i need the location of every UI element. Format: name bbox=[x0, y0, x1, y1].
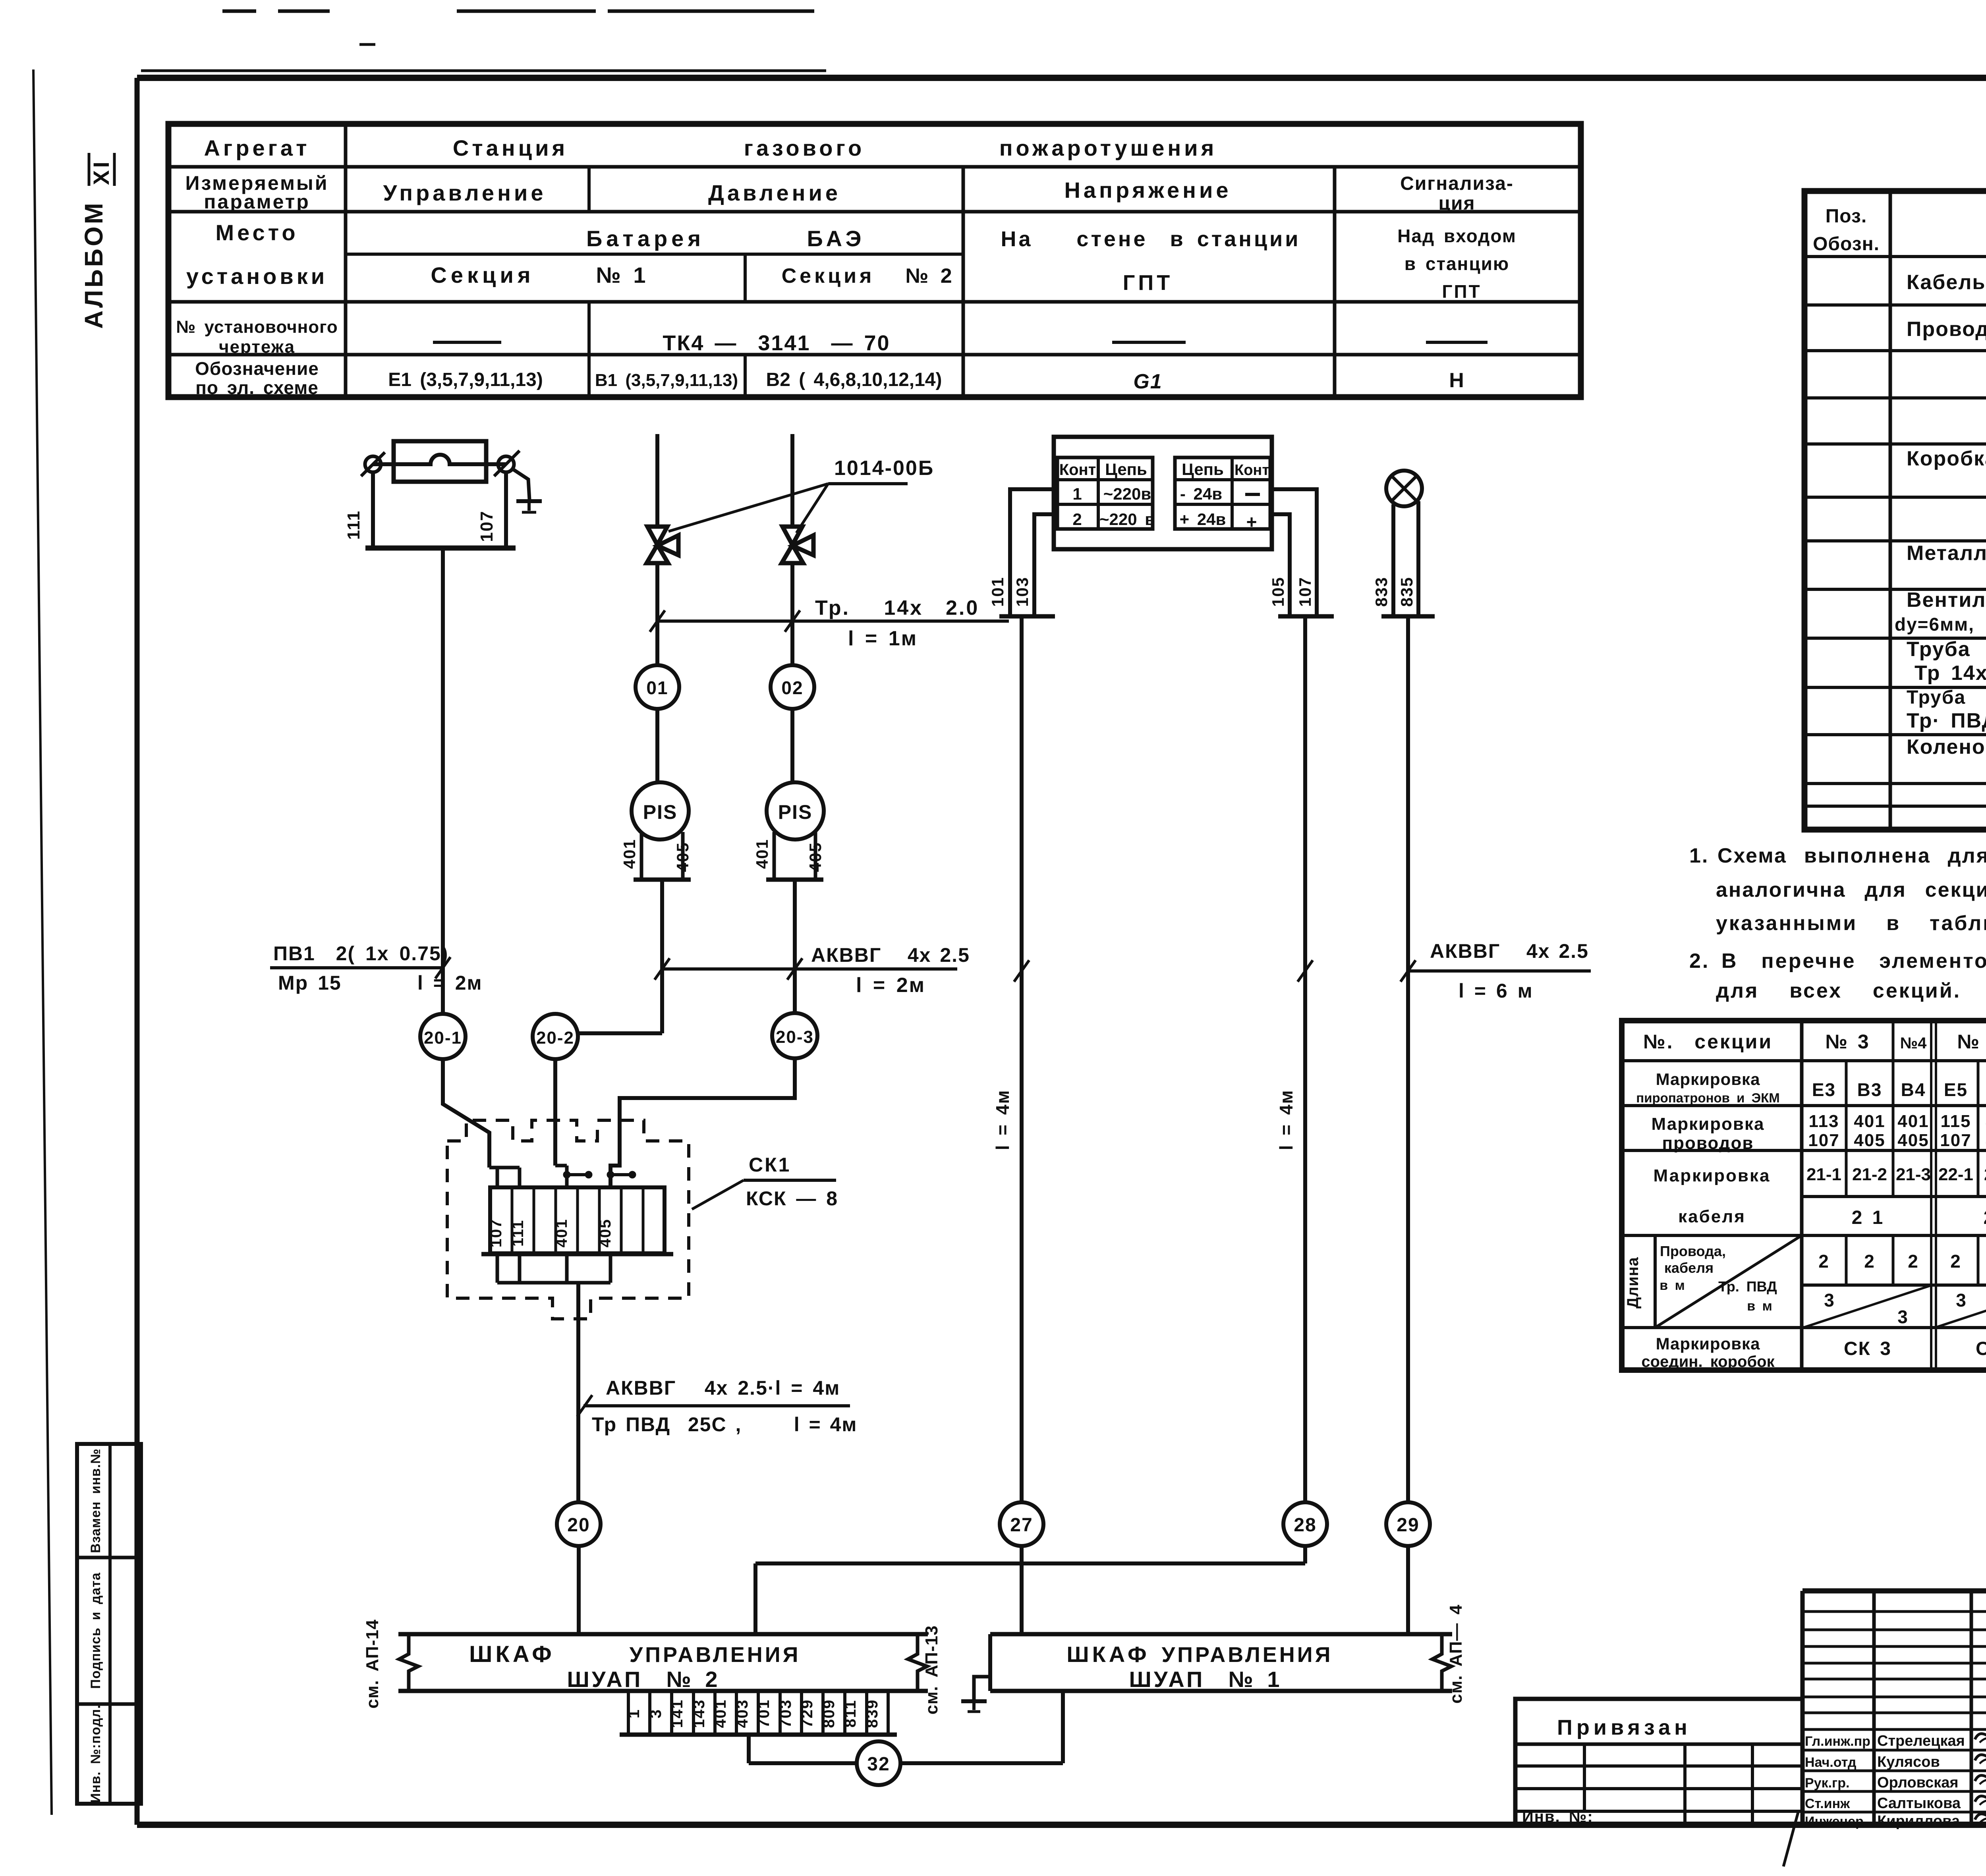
svg-text:БАЭ: БАЭ bbox=[807, 226, 865, 251]
svg-text:115: 115 bbox=[1941, 1112, 1971, 1131]
svg-text:3: 3 bbox=[1956, 1290, 1967, 1310]
svg-text:Маркировка: Маркировка bbox=[1656, 1334, 1760, 1353]
svg-text:кабеля: кабеля bbox=[1678, 1207, 1746, 1226]
svg-text:В2 ( 4,6,8,10,12,14): В2 ( 4,6,8,10,12,14) bbox=[766, 369, 942, 390]
svg-text:405: 405 bbox=[673, 842, 692, 872]
svg-text:1: 1 bbox=[1072, 484, 1082, 503]
svg-text:Труба полиэтиленовая среднег: Труба полиэтиленовая среднего типа bbox=[1907, 687, 1986, 708]
svg-text:В1 (3,5,7,9,11,13): В1 (3,5,7,9,11,13) bbox=[595, 371, 738, 390]
svg-text:G1: G1 bbox=[1133, 370, 1162, 393]
svg-text:1014-00Б: 1014-00Б bbox=[834, 457, 934, 480]
svg-text:27: 27 bbox=[1010, 1515, 1033, 1536]
svg-text:Орловская: Орловская bbox=[1877, 1774, 1959, 1791]
svg-text:809: 809 bbox=[820, 1699, 838, 1728]
svg-text:729: 729 bbox=[798, 1699, 816, 1728]
svg-text:ция: ция bbox=[1438, 193, 1475, 214]
svg-text:Е1 (3,5,7,9,11,13): Е1 (3,5,7,9,11,13) bbox=[388, 369, 543, 390]
svg-text:Тр. ПВД: Тр. ПВД bbox=[1718, 1278, 1777, 1295]
svg-text:703: 703 bbox=[777, 1699, 794, 1728]
svg-text:833: 833 bbox=[1372, 577, 1391, 607]
svg-text:пожаротушения: пожаротушения bbox=[999, 135, 1217, 160]
svg-text:Взамен инв.№: Взамен инв.№ bbox=[88, 1448, 103, 1553]
svg-text:аналогична для секций № 3 .: аналогична для секций № 3 .... № 14 с из… bbox=[1716, 878, 1986, 901]
svg-text:20-1: 20-1 bbox=[424, 1028, 462, 1048]
svg-text:Кабель АКВВГ 4х 2.5 ГОСТ 15: Кабель АКВВГ 4х 2.5 ГОСТ 1508 -78 bbox=[1907, 271, 1986, 294]
svg-text:газового: газового bbox=[744, 135, 865, 160]
svg-text:по эл. схеме: по эл. схеме bbox=[195, 377, 319, 398]
svg-text:чертежа: чертежа bbox=[219, 337, 295, 357]
svg-text:28: 28 bbox=[1294, 1515, 1316, 1536]
svg-text:l = 4м: l = 4м bbox=[992, 1090, 1013, 1150]
svg-text:СК1: СК1 bbox=[749, 1154, 791, 1176]
svg-text:29: 29 bbox=[1397, 1515, 1419, 1536]
svg-text:см. АП— 4: см. АП— 4 bbox=[1446, 1604, 1466, 1704]
svg-text:в станции: в станции bbox=[1170, 227, 1301, 251]
svg-text:в м: в м bbox=[1747, 1299, 1772, 1314]
svg-text:701: 701 bbox=[755, 1699, 773, 1728]
svg-text:Рук.гр.: Рук.гр. bbox=[1805, 1776, 1849, 1791]
svg-text:401: 401 bbox=[753, 839, 771, 869]
svg-text:Агрегат: Агрегат bbox=[204, 135, 310, 160]
svg-text:ПВ1 2( 1х 0.75): ПВ1 2( 1х 0.75) bbox=[273, 942, 448, 965]
svg-text:Инв. №:: Инв. №: bbox=[1522, 1808, 1594, 1826]
svg-text:XI: XI bbox=[89, 159, 114, 185]
svg-text:УПРАВЛЕНИЯ: УПРАВЛЕНИЯ bbox=[630, 1643, 801, 1667]
svg-text:401: 401 bbox=[553, 1219, 570, 1248]
svg-text:На: На bbox=[1001, 227, 1033, 251]
svg-text:Напряжение: Напряжение bbox=[1064, 178, 1231, 203]
svg-text:+: + bbox=[1246, 511, 1258, 532]
svg-text:103: 103 bbox=[1013, 577, 1032, 607]
svg-text:835: 835 bbox=[1397, 577, 1416, 607]
svg-text:Мр 15 l = 2м: Мр 15 l = 2м bbox=[278, 972, 483, 994]
svg-text:Е5: Е5 bbox=[1944, 1079, 1968, 1100]
svg-text:ШУАП № 1: ШУАП № 1 bbox=[1129, 1667, 1282, 1692]
svg-text:Металлорукав РЗ-Ц-Х-Ш-: Металлорукав РЗ-Ц-Х-Ш-15 bbox=[1907, 542, 1986, 565]
svg-text:в станцию: в станцию bbox=[1404, 253, 1509, 274]
svg-text:Управление: Управление bbox=[383, 180, 547, 205]
svg-text:В4: В4 bbox=[1901, 1079, 1926, 1100]
svg-text:3: 3 bbox=[1897, 1307, 1909, 1327]
svg-text:№ 5: № 5 bbox=[1957, 1031, 1986, 1053]
svg-text:В3: В3 bbox=[1857, 1079, 1882, 1100]
svg-text:ШКАФ: ШКАФ bbox=[469, 1641, 555, 1667]
svg-text:ШУАП № 2: ШУАП № 2 bbox=[567, 1667, 720, 1692]
svg-text:2: 2 bbox=[1864, 1251, 1875, 1272]
svg-text:111: 111 bbox=[344, 510, 363, 540]
svg-text:соедин. коробок: соедин. коробок bbox=[1641, 1353, 1775, 1370]
svg-text:405: 405 bbox=[1854, 1131, 1885, 1150]
svg-text:107: 107 bbox=[487, 1219, 505, 1248]
svg-text:401: 401 bbox=[620, 839, 639, 869]
svg-text:Маркировка: Маркировка bbox=[1652, 1114, 1765, 1134]
svg-text:403: 403 bbox=[734, 1699, 751, 1728]
svg-text:811: 811 bbox=[842, 1700, 859, 1728]
svg-text:Нач.отд: Нач.отд bbox=[1805, 1755, 1857, 1770]
svg-text:Сигнализа-: Сигнализа- bbox=[1400, 173, 1514, 194]
svg-text:Труба стальная бесшовная: Труба стальная бесшовная bbox=[1907, 638, 1986, 661]
svg-text:01: 01 bbox=[646, 677, 668, 698]
svg-text:Маркировка: Маркировка bbox=[1656, 1070, 1760, 1089]
svg-text:Тр 14х 2.0 ГОСТ 8734 -79: Тр 14х 2.0 ГОСТ 8734 -79 bbox=[1915, 662, 1986, 685]
svg-text:КСК — 8: КСК — 8 bbox=[746, 1187, 838, 1210]
svg-text:Е3: Е3 bbox=[1812, 1079, 1836, 1100]
svg-text:~220в: ~220в bbox=[1103, 484, 1151, 503]
svg-text:кабеля: кабеля bbox=[1664, 1260, 1714, 1276]
svg-text:№4: №4 bbox=[1900, 1035, 1927, 1052]
svg-text:401: 401 bbox=[1897, 1112, 1929, 1131]
svg-text:107: 107 bbox=[1808, 1131, 1839, 1150]
svg-text:№. секции: №. секции bbox=[1643, 1031, 1773, 1053]
svg-text:АЛЬБОМ: АЛЬБОМ bbox=[79, 201, 108, 329]
svg-text:параметр: параметр bbox=[204, 191, 310, 213]
svg-text:Тр ПВД 25С , l = 4м: Тр ПВД 25С , l = 4м bbox=[592, 1413, 857, 1436]
svg-text:3: 3 bbox=[647, 1709, 665, 1718]
svg-text:107: 107 bbox=[1296, 577, 1314, 607]
svg-text:Вентиль трехходовой 1014-: Вентиль трехходовой 1014- 00Б bbox=[1907, 589, 1986, 612]
svg-text:141: 141 bbox=[668, 1699, 686, 1728]
svg-text:Секция: Секция bbox=[782, 264, 875, 288]
svg-text:PIS: PIS bbox=[778, 801, 813, 823]
svg-text:l = 4м: l = 4м bbox=[1276, 1090, 1296, 1150]
svg-text:+ 24в: + 24в bbox=[1180, 510, 1226, 529]
svg-text:№ 2: № 2 bbox=[905, 264, 953, 288]
svg-text:2 2: 2 2 bbox=[1984, 1207, 1986, 1228]
svg-text:l = 2м: l = 2м bbox=[856, 974, 925, 997]
svg-text:АКВВГ 4х 2.5: АКВВГ 4х 2.5 bbox=[811, 944, 970, 966]
svg-text:АКВВГ 4х 2.5·l = 4м: АКВВГ 4х 2.5·l = 4м bbox=[606, 1377, 840, 1399]
svg-text:стене: стене bbox=[1076, 227, 1148, 251]
svg-text:указанными в таблице пр: указанными в таблице применимости. bbox=[1716, 912, 1986, 935]
svg-text:l = 6 м: l = 6 м bbox=[1459, 980, 1533, 1002]
svg-text:113: 113 bbox=[1809, 1112, 1839, 1131]
svg-text:PIS: PIS bbox=[643, 801, 678, 823]
svg-text:Ст.инж: Ст.инж bbox=[1805, 1796, 1850, 1811]
svg-text:Кулясов: Кулясов bbox=[1877, 1754, 1940, 1770]
svg-text:2: 2 bbox=[1950, 1251, 1961, 1272]
svg-text:Давление: Давление bbox=[708, 180, 841, 205]
svg-text:1: 1 bbox=[625, 1709, 643, 1718]
svg-text:Конт: Конт bbox=[1234, 462, 1269, 479]
svg-text:- 24в: - 24в bbox=[1180, 484, 1222, 503]
svg-text:Цепь: Цепь bbox=[1182, 460, 1224, 479]
svg-text:Кириллова: Кириллова bbox=[1877, 1813, 1960, 1830]
svg-text:21-1: 21-1 bbox=[1806, 1165, 1841, 1184]
svg-text:143: 143 bbox=[690, 1699, 708, 1728]
svg-text:см. АП-14: см. АП-14 bbox=[363, 1619, 382, 1709]
svg-text:Инв. №:подл.: Инв. №:подл. bbox=[88, 1704, 103, 1803]
svg-text:СК 3: СК 3 bbox=[1844, 1338, 1891, 1359]
svg-text:101: 101 bbox=[988, 577, 1007, 607]
svg-text:Провод ПВ1 1х 0.75 ГОСТ 632: Провод ПВ1 1х 0.75 ГОСТ 6323 — 79 bbox=[1907, 318, 1986, 341]
svg-text:ТК4 — 3141 — 70: ТК4 — 3141 — 70 bbox=[663, 331, 890, 355]
svg-text:Колено Труба Т 25х 1.6: Колено Труба Т 25х 1.6 bbox=[1907, 735, 1986, 759]
svg-text:№ 1: № 1 bbox=[596, 262, 647, 288]
svg-text:Провода,: Провода, bbox=[1660, 1243, 1726, 1259]
svg-text:105: 105 bbox=[1269, 577, 1287, 607]
svg-text:21-2: 21-2 bbox=[1852, 1165, 1887, 1184]
svg-text:2: 2 bbox=[1818, 1251, 1830, 1272]
svg-text:Тр· ПВД 25С ГОСТ 18599 -: Тр· ПВД 25С ГОСТ 18599 -73 bbox=[1907, 709, 1986, 732]
svg-text:Маркировка: Маркировка bbox=[1654, 1166, 1771, 1185]
svg-text:ГПТ: ГПТ bbox=[1123, 271, 1173, 295]
svg-text:Гл.инж.пр: Гл.инж.пр bbox=[1805, 1734, 1870, 1749]
svg-text:Цепь: Цепь bbox=[1105, 460, 1147, 479]
svg-text:107: 107 bbox=[477, 510, 496, 542]
svg-text:839: 839 bbox=[864, 1699, 881, 1728]
svg-text:Подпись и дата: Подпись и дата bbox=[88, 1572, 103, 1689]
svg-text:ГПТ: ГПТ bbox=[1442, 281, 1481, 302]
svg-text:2: 2 bbox=[1908, 1251, 1919, 1272]
svg-text:пиропатронов и ЭКМ: пиропатронов и ЭКМ bbox=[1636, 1090, 1779, 1105]
svg-text:107: 107 bbox=[1940, 1131, 1971, 1150]
svg-text:405: 405 bbox=[1897, 1131, 1929, 1150]
svg-text:22-1: 22-1 bbox=[1938, 1165, 1973, 1184]
svg-text:Н: Н bbox=[1449, 369, 1465, 392]
svg-text:21-3: 21-3 bbox=[1896, 1165, 1931, 1184]
svg-text:02: 02 bbox=[781, 677, 803, 698]
svg-text:405: 405 bbox=[597, 1219, 614, 1248]
svg-text:Коробка соединительная КС: Коробка соединительная КСК-8 bbox=[1907, 447, 1986, 470]
svg-text:2. В перечне элементов учте: 2. В перечне элементов учтены изделия и … bbox=[1689, 950, 1986, 973]
svg-text:УПРАВЛЕНИЯ: УПРАВЛЕНИЯ bbox=[1162, 1643, 1333, 1667]
svg-text:в м: в м bbox=[1660, 1278, 1685, 1293]
svg-text:Конт: Конт bbox=[1059, 461, 1096, 479]
svg-text:АКВВГ 4х 2.5: АКВВГ 4х 2.5 bbox=[1430, 940, 1589, 962]
svg-text:20-2: 20-2 bbox=[536, 1028, 574, 1048]
svg-text:Над входом: Над входом bbox=[1397, 226, 1517, 246]
svg-text:Секция: Секция bbox=[431, 262, 534, 288]
svg-text:~220 в: ~220 в bbox=[1099, 510, 1155, 529]
svg-text:Салтыкова: Салтыкова bbox=[1877, 1795, 1961, 1812]
svg-text:1. Схема выполнена для секц: 1. Схема выполнена для секций № 1 и № 2 … bbox=[1689, 844, 1986, 867]
svg-text:Поз.: Поз. bbox=[1826, 206, 1867, 227]
svg-text:Стрелецкая: Стрелецкая bbox=[1877, 1733, 1965, 1749]
svg-text:Инженер: Инженер bbox=[1805, 1814, 1864, 1829]
svg-text:l = 1м: l = 1м bbox=[848, 627, 918, 650]
svg-text:Обозначение: Обозначение bbox=[195, 358, 319, 379]
svg-text:dу=6мм, Ру= 20 МРа, ТУ 26-: dу=6мм, Ру= 20 МРа, ТУ 26-3-05-002-72 bbox=[1895, 614, 1986, 635]
svg-text:Тр. 14х 2.0: Тр. 14х 2.0 bbox=[815, 596, 979, 620]
svg-text:Обозн.: Обозн. bbox=[1813, 234, 1880, 255]
svg-text:ШКАФ: ШКАФ bbox=[1066, 1642, 1149, 1667]
svg-text:установки: установки bbox=[186, 264, 328, 289]
svg-text:Привязан: Привязан bbox=[1557, 1716, 1691, 1739]
svg-text:см. АП-13: см. АП-13 bbox=[922, 1625, 941, 1715]
svg-text:32: 32 bbox=[867, 1754, 890, 1775]
svg-text:№ 3: № 3 bbox=[1825, 1031, 1869, 1053]
svg-text:2 1: 2 1 bbox=[1852, 1207, 1884, 1228]
svg-text:111: 111 bbox=[509, 1220, 527, 1247]
svg-text:401: 401 bbox=[1854, 1112, 1885, 1131]
svg-text:Длина: Длина bbox=[1624, 1257, 1642, 1309]
svg-text:2: 2 bbox=[1072, 510, 1082, 529]
svg-text:№ установочного: № установочного bbox=[176, 317, 338, 337]
svg-text:проводов: проводов bbox=[1662, 1133, 1754, 1153]
svg-text:для всех секций.: для всех секций. bbox=[1716, 979, 1961, 1002]
svg-text:20: 20 bbox=[567, 1515, 590, 1536]
svg-text:20-3: 20-3 bbox=[776, 1027, 814, 1047]
svg-text:405: 405 bbox=[806, 842, 825, 872]
svg-text:СК 5: СК 5 bbox=[1976, 1338, 1986, 1359]
svg-text:Батарея: Батарея bbox=[586, 226, 705, 251]
svg-text:3: 3 bbox=[1824, 1290, 1835, 1310]
svg-text:22-2: 22-2 bbox=[1984, 1165, 1986, 1184]
svg-text:401: 401 bbox=[712, 1699, 729, 1728]
svg-text:Место: Место bbox=[215, 220, 298, 245]
svg-text:Станция: Станция bbox=[453, 135, 568, 160]
